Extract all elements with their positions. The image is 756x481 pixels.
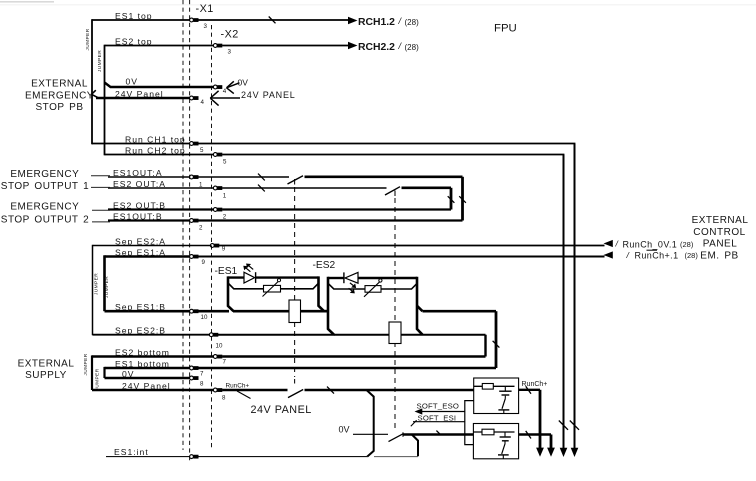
- varistor R-ES1: [264, 285, 281, 292]
- svg-text:Sep ES1:A: Sep ES1:A: [115, 248, 166, 258]
- resistor in K1: [482, 384, 493, 390]
- label EMERGENCY STOP OUTPUT 2: [1, 202, 89, 226]
- svg-text:Sep ES2:B: Sep ES2:B: [115, 326, 166, 336]
- arrow down K2: [547, 448, 555, 457]
- goto arrow RunCh_0V.1: [604, 240, 613, 247]
- svg-text:Sep ES2:A: Sep ES2:A: [115, 237, 166, 247]
- svg-text:EMERGENCY: EMERGENCY: [10, 169, 79, 180]
- net label RunCh_0V.1 (28): [615, 239, 694, 250]
- connector pin -X1:8: [190, 376, 204, 387]
- svg-text:JUMPER: JUMPER: [94, 273, 100, 295]
- svg-text:JUMPER: JUMPER: [94, 368, 100, 390]
- svg-text:PANEL: PANEL: [703, 239, 738, 250]
- arrow to RCH2.2: [348, 42, 358, 49]
- svg-text:8: 8: [200, 381, 204, 388]
- jumper bus ES1-bottom to 0V: [103, 367, 105, 378]
- svg-text:7: 7: [223, 359, 227, 366]
- connector pin -X2:5: [213, 153, 227, 166]
- svg-text:4: 4: [201, 99, 205, 106]
- varistor R-ES2: [365, 286, 381, 293]
- svg-text:(28): (28): [685, 251, 699, 260]
- svg-text:24V PANEL: 24V PANEL: [251, 404, 312, 416]
- switch contact RunCh+: [288, 390, 303, 398]
- svg-text:FPU: FPU: [494, 23, 517, 35]
- wire ES1OUT:A: [108, 176, 463, 178]
- ES1 left edge: [228, 276, 234, 311]
- net label RunCh+.1 (28): [626, 250, 699, 261]
- tick on U-link outer: [459, 196, 466, 203]
- connector pin -X1:9: [190, 255, 206, 266]
- wire K2 output: [519, 435, 551, 449]
- svg-text:ES1OUT:B: ES1OUT:B: [113, 212, 163, 222]
- connector pin -X1:3: [190, 3, 214, 30]
- svg-text:8: 8: [222, 395, 226, 402]
- label EXTERNAL EMERGENCY STOP PB: [25, 79, 94, 114]
- ES2 bottom branch wire: [334, 334, 423, 336]
- wire Sep ES1:B: [105, 310, 230, 313]
- svg-text:RCH2.2: RCH2.2: [358, 42, 395, 53]
- mechanical link dashed line ES2: [394, 191, 396, 429]
- svg-text:Sep ES1:B: Sep ES1:B: [115, 302, 166, 312]
- connector pin -X1:1: [190, 175, 203, 188]
- switch contact ES1 channel A: [288, 176, 304, 184]
- svg-text:(28): (28): [405, 18, 420, 27]
- wire 0V bottom: [105, 377, 190, 379]
- wire 0V top: [105, 83, 214, 88]
- svg-text:(28): (28): [405, 43, 420, 52]
- goto arrow 24V PANEL: [210, 90, 295, 106]
- svg-text:0V: 0V: [339, 425, 350, 435]
- switch contact 0V (SOFT): [389, 434, 403, 442]
- svg-text:STOP OUTPUT 1: STOP OUTPUT 1: [1, 181, 89, 192]
- ES2 right edge: [417, 277, 423, 335]
- leader to 24V PANEL label: [237, 391, 251, 399]
- svg-text:0V: 0V: [238, 77, 249, 87]
- svg-text:3: 3: [228, 49, 232, 56]
- svg-text:EXTERNAL: EXTERNAL: [18, 358, 75, 369]
- goto arrow 0V: [227, 77, 249, 93]
- signal SOFT_ESI: [411, 413, 465, 426]
- svg-text:RCH1.2: RCH1.2: [358, 17, 395, 28]
- wire ES2 bottom: [92, 355, 486, 357]
- arrow to RCH1.2: [348, 17, 358, 24]
- tick on vertical A: [570, 421, 579, 430]
- svg-text:JUMPER: JUMPER: [97, 50, 103, 72]
- svg-text:JUMPER: JUMPER: [83, 353, 89, 375]
- svg-text:JUMPER: JUMPER: [85, 28, 91, 50]
- ES2 top branch wire: [328, 277, 344, 279]
- svg-text:9: 9: [222, 246, 226, 253]
- svg-text:ES1:int: ES1:int: [114, 447, 149, 457]
- svg-text:0V: 0V: [122, 369, 135, 379]
- capacitor in K2: [504, 432, 506, 436]
- LED ES1 light arrows: [243, 264, 253, 272]
- connector pin -X2:7: [213, 355, 226, 366]
- tick on U-link inner: [448, 196, 455, 203]
- ES2 mid exit chamfer: [417, 306, 423, 311]
- connector pin -X1:10: [190, 309, 208, 321]
- svg-text:ES2 top: ES2 top: [115, 37, 153, 47]
- capacitor in K1: [504, 386, 506, 390]
- ES2 mid wire: [324, 310, 328, 313]
- connector pin -X2:9: [210, 244, 225, 253]
- connector pin -X2:10: [209, 333, 223, 350]
- U-link ES1 OUT A-B: [461, 177, 464, 221]
- connector pin -X1:4: [190, 96, 205, 106]
- ES2 varistor branch: [328, 283, 417, 289]
- svg-text:Run CH2 top: Run CH2 top: [125, 146, 186, 156]
- switch contact ES2 channel A: [385, 187, 400, 195]
- resistor R1 in ES1: [289, 300, 301, 323]
- jumper bus Sep ES2: [92, 245, 94, 335]
- wire Sep ES2:A: [93, 245, 605, 247]
- connector pin -X1:5: [190, 142, 204, 154]
- svg-text:ES2 OUT:B: ES2 OUT:B: [113, 201, 166, 211]
- wire 0V mid: [353, 433, 473, 435]
- wire ES1:int: [106, 456, 418, 458]
- tick on RunCh+ wire: [327, 387, 334, 394]
- arrow down K1: [536, 448, 544, 457]
- svg-text:9: 9: [202, 259, 206, 266]
- jumper bus ES2-bottom to 24V: [91, 355, 93, 390]
- svg-text:2: 2: [199, 225, 203, 232]
- lamp unit ES1: [215, 264, 329, 323]
- svg-text:ES1 bottom: ES1 bottom: [115, 359, 170, 369]
- wire ES1 bottom: [105, 367, 497, 369]
- wire Sep ES1:B to ES1-bottom U-link: [423, 311, 497, 368]
- tick on K2 output: [526, 431, 531, 439]
- svg-text:EMERGENCY: EMERGENCY: [25, 90, 94, 101]
- svg-text:RunCh+: RunCh+: [226, 382, 250, 389]
- svg-text:10: 10: [201, 314, 208, 321]
- svg-text:ES2 OUT:A: ES2 OUT:A: [113, 179, 166, 189]
- tick on U-link outer bottom: [493, 341, 500, 348]
- label EMERGENCY STOP OUTPUT 1: [1, 169, 89, 192]
- svg-text:EXTERNAL: EXTERNAL: [692, 215, 749, 226]
- connector pin -X1:2: [190, 219, 203, 232]
- terminal strip dashed line X2 column: [211, 25, 213, 450]
- wire Run CH1 top: [92, 143, 575, 145]
- svg-text:24V Panel: 24V Panel: [115, 89, 164, 99]
- jumper bus ES1-top to RunCH1: [91, 19, 93, 144]
- svg-text:RunCh+: RunCh+: [522, 381, 548, 388]
- jumper bus Sep ES1: [103, 255, 106, 311]
- svg-text:JUMPER: JUMPER: [104, 276, 110, 298]
- label EXTERNAL SUPPLY: [18, 358, 75, 381]
- wire K1 output: [519, 390, 540, 449]
- signal SOFT_ESO arrow: [415, 401, 465, 414]
- U-link ES2 OUT A-B: [450, 188, 453, 210]
- wire Sep ES2:B: [93, 334, 335, 336]
- bracket SOFT signals: [465, 401, 474, 445]
- svg-text:24V PANEL: 24V PANEL: [241, 90, 296, 100]
- arrow down vertical B: [560, 448, 568, 457]
- wire 24V Panel top: [92, 90, 190, 98]
- tick on vertical B: [559, 421, 568, 430]
- svg-text:3: 3: [204, 23, 208, 30]
- relay block K2: [473, 424, 518, 459]
- ES1 varistor branch: [228, 283, 319, 289]
- connector pin -X2:4: [213, 85, 226, 95]
- svg-text:EMERGENCY: EMERGENCY: [10, 202, 79, 213]
- tick on wire ES1 top: [269, 17, 276, 24]
- lamp unit ES2: [313, 260, 423, 344]
- svg-text:SUPPLY: SUPPLY: [25, 370, 67, 381]
- switch contact in K1: [504, 396, 506, 399]
- svg-text:5: 5: [200, 147, 204, 154]
- svg-text:(28): (28): [680, 240, 694, 249]
- connector pin -X1:7: [190, 366, 204, 377]
- resistor in K2: [482, 429, 494, 435]
- decorative smudge top-left: [0, 1, 54, 3]
- switch pivot tick: [402, 432, 404, 437]
- wire 24V Panel bottom / RunCh+: [92, 389, 474, 391]
- tick on 0V mid wire: [436, 431, 440, 435]
- wire ES2 OUT:B: [108, 208, 451, 210]
- svg-text:10: 10: [216, 343, 223, 350]
- resistor R2 in ES2: [389, 322, 401, 344]
- wire RunCh vertical right A: [574, 144, 576, 449]
- svg-text:Run CH1 top: Run CH1 top: [125, 135, 186, 145]
- wire Sep ES1:A: [105, 255, 605, 258]
- svg-text:RunCh_0V.1: RunCh_0V.1: [623, 240, 678, 250]
- wire Sep ES2:B to ES2-bottom U-link: [423, 335, 486, 357]
- svg-text:EM. PB: EM. PB: [700, 250, 738, 261]
- svg-text:ES1 top: ES1 top: [115, 11, 153, 21]
- svg-text:24V Panel: 24V Panel: [122, 381, 171, 391]
- branch to ES1:int riser: [367, 390, 374, 457]
- svg-text:4: 4: [223, 88, 227, 95]
- svg-text:-ES1: -ES1: [215, 266, 238, 277]
- ES1 top branch wire: [228, 276, 245, 278]
- svg-text:CONTROL: CONTROL: [693, 227, 745, 238]
- tick on ES1OUT:A: [258, 174, 265, 181]
- svg-text:-X1: -X1: [196, 3, 214, 15]
- svg-text:5: 5: [223, 159, 227, 166]
- switch contact in K2: [504, 442, 506, 444]
- connector pin -X2:3: [213, 29, 238, 56]
- mechanical link dashed line ES1: [294, 179, 296, 384]
- LED ES1: [244, 272, 255, 283]
- LED ES2 light arrows: [349, 283, 357, 294]
- svg-text:ES2 bottom: ES2 bottom: [115, 348, 170, 358]
- svg-text:RunCh+.1: RunCh+.1: [635, 251, 679, 261]
- svg-text:EXTERNAL: EXTERNAL: [31, 79, 88, 90]
- label EXTERNAL CONTROL PANEL EM. PB: [692, 215, 749, 261]
- ES1 right edge: [319, 276, 325, 311]
- terminal strip dashed line X1 column: [182, 0, 184, 450]
- tick on ES2 OUT:A: [258, 185, 265, 192]
- riser 0V to ES1:int: [412, 435, 418, 457]
- svg-text:-ES2: -ES2: [313, 260, 336, 271]
- connector pin -X2:1: [213, 186, 226, 199]
- svg-text:STOP OUTPUT 2: STOP OUTPUT 2: [1, 215, 89, 226]
- svg-text:SOFT_ESO: SOFT_ESO: [417, 401, 460, 410]
- svg-text:0V: 0V: [126, 76, 139, 86]
- ES2 left edge: [328, 277, 334, 335]
- connector pin ES1:int: [190, 455, 199, 459]
- connector pin -X2:8: [213, 388, 226, 401]
- relay block K1: [474, 378, 519, 414]
- connector pin -X2:2: [213, 208, 226, 221]
- wire RunCh vertical right B: [563, 155, 565, 449]
- wire ES1 top: [92, 19, 349, 21]
- svg-text:7: 7: [200, 371, 204, 378]
- svg-text:1: 1: [223, 193, 227, 200]
- LED ES2: [345, 272, 358, 283]
- ES1 bottom branch wire: [233, 310, 328, 313]
- wire ES2 top: [105, 45, 350, 47]
- wire ES2 OUT:A: [108, 187, 451, 189]
- svg-text:STOP PB: STOP PB: [36, 102, 84, 113]
- terminal strip dashed line X1 column inner: [189, 0, 191, 462]
- wire Run CH2 top: [105, 154, 565, 156]
- goto arrow RunCh+.1: [604, 251, 613, 258]
- tick on K1 output: [526, 386, 531, 394]
- svg-text:ES1OUT:A: ES1OUT:A: [113, 168, 163, 178]
- svg-text:SOFT_ESI: SOFT_ESI: [418, 413, 457, 422]
- svg-text:-X2: -X2: [221, 29, 239, 41]
- arrow down vertical A: [571, 448, 579, 457]
- jumper bus ES2-top to RunCH2: [104, 45, 106, 156]
- wire ES1OUT:B: [91, 176, 463, 222]
